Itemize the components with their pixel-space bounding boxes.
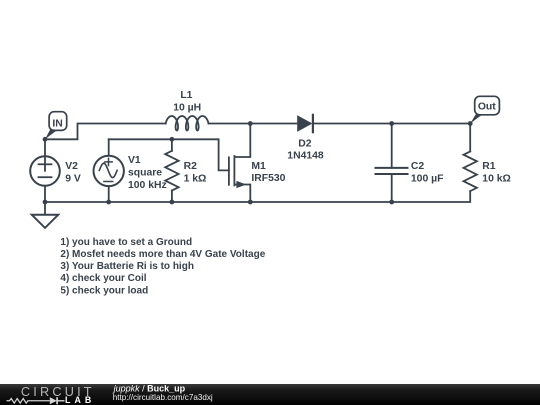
svg-text:3) Your Batterie Ri is to high: 3) Your Batterie Ri is to high — [60, 261, 194, 272]
capacitor C2 top lead — [391, 124, 393, 168]
flag Out tail — [470, 114, 482, 124]
node dot Out — [468, 121, 473, 126]
resistor R2 leads — [171, 139, 173, 151]
svg-text:L1: L1 — [180, 90, 192, 101]
logo diode symbol — [50, 397, 57, 404]
svg-text:100 kHz: 100 kHz — [128, 180, 167, 191]
wire ground stem — [44, 202, 46, 215]
wire top rail: inductor right to diode anode — [209, 123, 298, 125]
transistor M1 channel bar — [233, 156, 235, 185]
junction dot V2 bottom — [43, 200, 48, 205]
svg-text:2) Mosfet needs more than 4V G: 2) Mosfet needs more than 4V Gate Voltag… — [60, 249, 265, 260]
wire IN node to top rail (step) — [45, 124, 166, 140]
flag IN box — [49, 112, 67, 131]
svg-text:M1: M1 — [251, 161, 266, 172]
V1 plus sign — [105, 161, 112, 163]
resistor R1 top lead — [469, 124, 471, 152]
wire bottom rail — [45, 191, 470, 202]
svg-text:square: square — [128, 168, 162, 179]
svg-text:R1: R1 — [482, 161, 496, 172]
svg-text:1 kΩ: 1 kΩ — [184, 173, 207, 184]
V2 plus sign — [39, 163, 52, 165]
junction dot R2 bottom — [170, 200, 175, 205]
svg-text:R2: R2 — [184, 161, 198, 172]
V1 minus sign — [104, 181, 113, 183]
transistor M1 source lead — [234, 185, 250, 203]
inductor L1 coil — [166, 116, 209, 131]
transistor M1 source arrow — [236, 181, 246, 188]
flag IN tail — [45, 129, 57, 139]
junction dot C2 top — [389, 121, 394, 126]
V1 sine wave — [99, 163, 117, 177]
svg-text:C2: C2 — [411, 161, 425, 172]
diode D2 cathode bar — [312, 115, 314, 132]
transistor M1 gate bar — [228, 157, 230, 184]
svg-text:10 kΩ: 10 kΩ — [482, 173, 511, 184]
svg-text:10 µH: 10 µH — [173, 102, 201, 113]
svg-text:100 µF: 100 µF — [411, 173, 444, 184]
svg-text:4) check your Coil: 4) check your Coil — [60, 273, 146, 284]
capacitor C2 plates — [376, 167, 408, 169]
junction dot V1 bottom — [106, 200, 111, 205]
ground symbol — [32, 215, 58, 228]
diode D2 triangle — [297, 115, 312, 132]
wire V2 bottom lead — [44, 186, 46, 202]
flag Out box — [475, 96, 500, 115]
svg-text:http://circuitlab.com/c7a3dxj: http://circuitlab.com/c7a3dxj — [113, 393, 213, 402]
svg-text:9 V: 9 V — [65, 174, 81, 185]
voltage source V1 circle — [94, 156, 124, 186]
wire gate rail from V1 top — [109, 139, 229, 170]
svg-text:IRF530: IRF530 — [251, 173, 285, 184]
wire top rail: diode cathode to Out node — [313, 123, 470, 125]
capacitor C2 bottom lead — [391, 174, 393, 202]
voltage source V2 circle — [30, 156, 60, 186]
svg-text:V2: V2 — [65, 161, 78, 172]
junction dot M1 drain — [248, 121, 253, 126]
svg-text:V1: V1 — [128, 155, 141, 166]
wire V2 top lead — [44, 139, 46, 156]
svg-text:IN: IN — [52, 118, 62, 129]
junction dot M1 source — [248, 200, 253, 205]
wire V1 bottom lead — [108, 186, 110, 202]
node dot IN — [43, 137, 48, 142]
junction dot R2 top — [170, 137, 175, 142]
svg-text:5) check your load: 5) check your load — [60, 285, 148, 296]
svg-text:D2: D2 — [298, 138, 312, 149]
V2 minus sign — [39, 176, 52, 178]
svg-text:1) you have to set a Ground: 1) you have to set a Ground — [60, 237, 192, 248]
svg-text:1N4148: 1N4148 — [287, 150, 324, 161]
logo resistor zigzag — [7, 399, 50, 404]
transistor M1 drain lead — [234, 124, 250, 158]
resistor R2 zigzag — [165, 151, 178, 191]
wire V1 top lead — [108, 139, 110, 155]
resistor R1 zigzag — [464, 151, 477, 191]
junction dot C2 bottom — [389, 200, 394, 205]
svg-text:LAB: LAB — [65, 395, 95, 405]
svg-text:Out: Out — [478, 102, 496, 113]
